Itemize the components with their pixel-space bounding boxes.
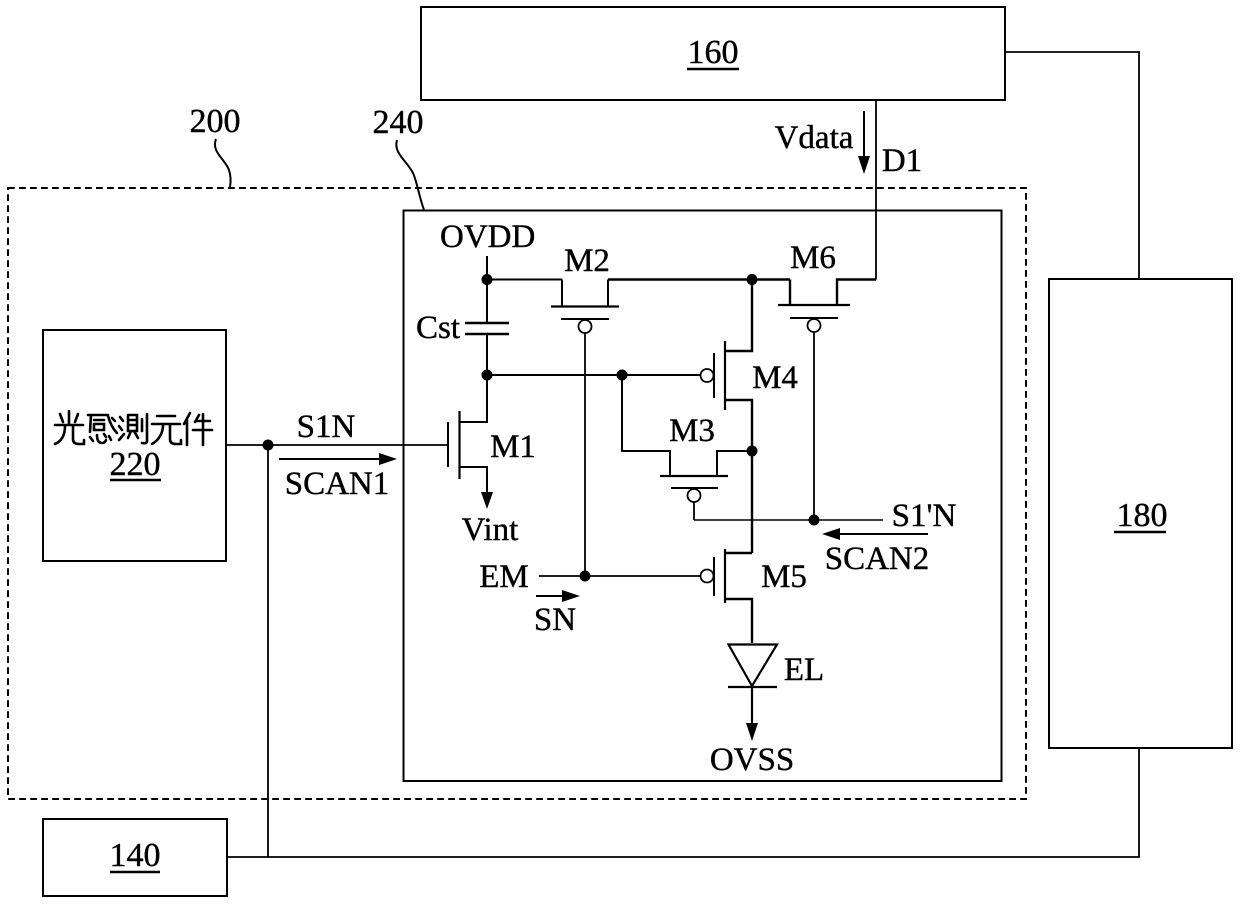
block 180 box [1049, 279, 1232, 748]
transistor M5 (PMOS) [701, 549, 753, 643]
label Cst [416, 310, 460, 346]
arrow Vdata down [858, 111, 870, 174]
arrow SCAN1 (pointing right) [279, 453, 397, 465]
wire M2 gate to EM [584, 333, 586, 576]
wire storage node (Cst bottom to M4 gate) [487, 374, 701, 376]
label Vdata [775, 120, 854, 156]
node Cst bottom junction [482, 370, 493, 381]
label S1N [297, 409, 356, 445]
pixel circuit box 240 [404, 211, 1002, 782]
svg-text:Cst: Cst [416, 310, 460, 346]
label M1 [490, 429, 536, 465]
label M2 [564, 243, 610, 279]
svg-text:180: 180 [1117, 497, 1168, 534]
光 [55, 411, 84, 444]
node S1'N-M6 gate junction [809, 515, 820, 526]
svg-text:OVDD: OVDD [440, 219, 535, 255]
label 180 [1114, 497, 1168, 534]
svg-text:200: 200 [190, 103, 241, 140]
label EM [479, 559, 529, 595]
capacitor Cst [465, 280, 509, 376]
感 [88, 415, 117, 443]
svg-text:M3: M3 [669, 413, 715, 449]
label S1'N [892, 498, 957, 534]
leader squiggle for 240 [396, 140, 424, 210]
wire EM line [539, 575, 701, 577]
测 [119, 414, 147, 443]
svg-text:Vdata: Vdata [775, 120, 854, 156]
node S1N junction [263, 440, 274, 451]
dashed block 200 boundary [8, 188, 1026, 799]
svg-text:240: 240 [373, 104, 424, 141]
block 220 box (light sensing element) [43, 330, 226, 561]
label M5 [761, 559, 807, 595]
wire M4/M5 vertical (drain chain) [751, 451, 753, 553]
wire OVDD stub [486, 256, 488, 280]
label SN [534, 602, 576, 638]
transistor M6 (PMOS) [778, 280, 876, 333]
node storage-M3 branch junction [617, 370, 628, 381]
label SCAN1 [285, 466, 390, 502]
wire EL cathode + arrow OVSS [746, 687, 758, 741]
wire S1N from 220 to M1 gate [226, 444, 448, 446]
label D1 [882, 143, 922, 179]
svg-text:M5: M5 [761, 559, 807, 595]
wire from 160 to 180 (top right) [1005, 52, 1139, 279]
wire OVDD rail left segment [487, 279, 562, 281]
node EM-M2 gate junction [580, 571, 591, 582]
svg-text:EM: EM [479, 559, 529, 595]
svg-text:SN: SN [534, 602, 576, 638]
label EL [784, 652, 824, 688]
node OVDD-rail junction [482, 274, 493, 285]
arrow SCAN2 (pointing left) [822, 528, 928, 540]
svg-text:D1: D1 [882, 143, 922, 179]
svg-text:160: 160 [688, 34, 739, 71]
svg-text:SCAN2: SCAN2 [825, 541, 930, 577]
block 160 box [421, 7, 1005, 100]
svg-text:EL: EL [784, 652, 824, 688]
label OVSS [710, 742, 794, 778]
svg-text:M1: M1 [490, 429, 536, 465]
wire D1 data line from 160 into circuit [875, 100, 877, 280]
label M4 [752, 360, 798, 396]
transistor M4 (PMOS) [701, 280, 753, 452]
label M3 [669, 413, 715, 449]
label 200 [190, 103, 241, 140]
wire M6 gate to SCAN2 line [813, 332, 815, 520]
label Vint [462, 512, 519, 548]
label 220 [110, 446, 162, 483]
label 光感测元件 (drawn glyphs) [55, 411, 212, 445]
svg-text:S1'N: S1'N [892, 498, 957, 534]
svg-text:140: 140 [110, 837, 161, 874]
wire S1'N scan line [694, 519, 883, 521]
label 140 [110, 837, 161, 874]
label SCAN2 [825, 541, 930, 577]
label 240 [373, 104, 424, 141]
svg-text:220: 220 [110, 446, 161, 483]
wire OVDD rail right segment [608, 278, 790, 280]
label 160 [687, 34, 739, 71]
svg-text:OVSS: OVSS [710, 742, 794, 778]
wire M3 gate drop [693, 502, 695, 520]
label OVDD [440, 219, 535, 255]
diode EL [728, 645, 777, 688]
svg-text:M6: M6 [790, 240, 836, 276]
svg-text:M2: M2 [564, 243, 610, 279]
wire S1N node down to 140 line [267, 445, 269, 857]
svg-text:SCAN1: SCAN1 [285, 466, 390, 502]
件 [184, 413, 212, 445]
transistor M2 (PMOS) [551, 280, 619, 334]
transistor M3 (PMOS) [622, 375, 752, 502]
label M6 [790, 240, 836, 276]
block 140 box [43, 819, 227, 896]
transistor M1 (NMOS) [448, 375, 487, 497]
svg-text:S1N: S1N [297, 409, 356, 445]
svg-text:Vint: Vint [462, 512, 519, 548]
leader squiggle for 200 [215, 139, 231, 187]
node rail-M4 junction [747, 274, 758, 285]
arrow Vint (M1 source) [481, 492, 493, 509]
wire from 180 bottom to 140 [227, 748, 1139, 857]
svg-text:M4: M4 [752, 360, 798, 396]
元 [152, 416, 181, 444]
node M3/M4/M5 junction [747, 446, 758, 457]
arrow SN (pointing right) [536, 590, 580, 602]
